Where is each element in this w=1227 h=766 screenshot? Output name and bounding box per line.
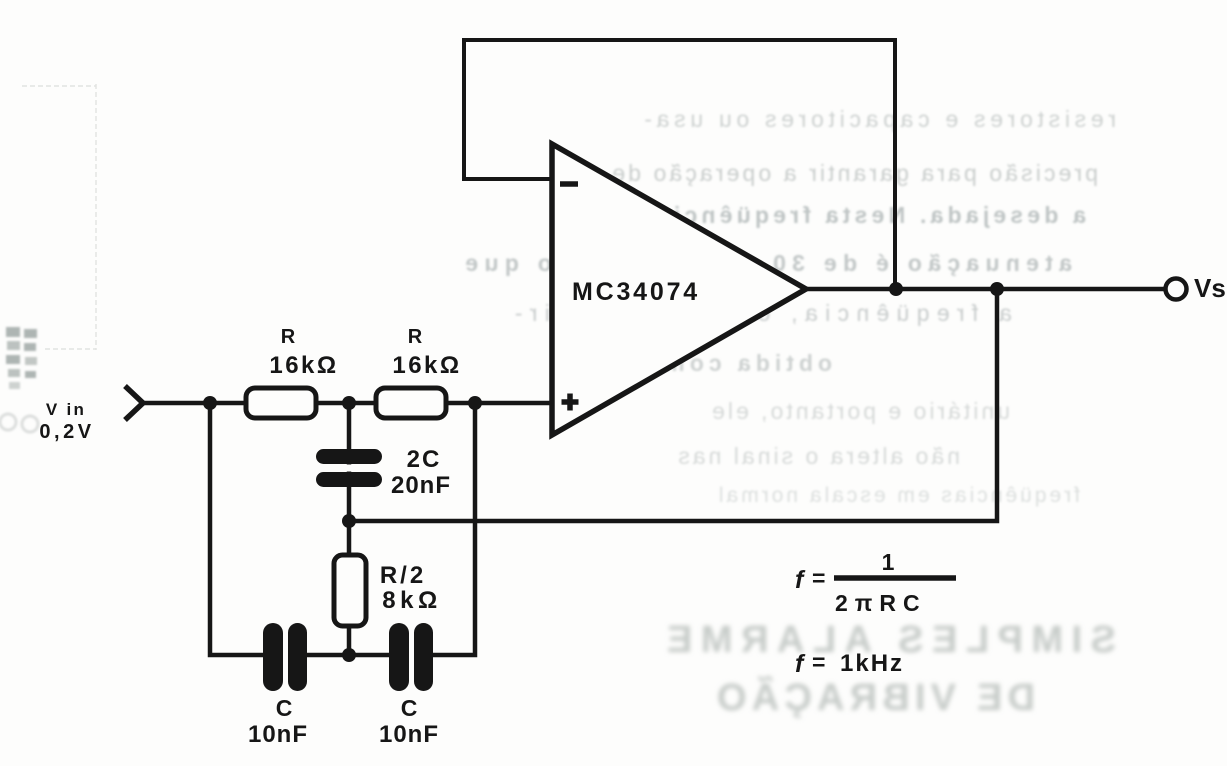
svg-text:0,2V: 0,2V [39,421,94,443]
output terminal Vs circle [1166,279,1187,300]
ghost show-through text (mirrored, faint) [459,106,1116,507]
node C: R2 output / right branch junction [468,396,482,410]
resistor R1 16k [246,388,316,418]
svg-text:16kΩ: 16kΩ [269,352,338,379]
node F: output / feedback-loop junction [889,282,903,296]
resistor R2 16k [376,388,446,418]
resistor R/2 8k [334,555,366,626]
svg-text:unitário e portanto, ele: unitário e portanto, ele [709,398,1010,424]
svg-text:resistores e capacitores ou us: resistores e capacitores ou usa- [640,106,1116,132]
svg-text:10nF: 10nF [379,721,439,748]
svg-text:não altera o sinal nas: não altera o sinal nas [675,443,960,469]
small grey smudges, left edge [6,327,37,389]
capacitor C1 plates [263,623,307,691]
svg-text:freqüências em escala normal: freqüências em escala normal [716,484,1080,507]
formula f = 1 / 2piRC [795,549,956,616]
node G: output / lower-feedback junction [990,282,1004,296]
svg-text:1kHz: 1kHz [840,650,904,677]
svg-text:V in: V in [46,400,86,419]
svg-text:precisão para garantir a opera: precisão para garantir a operação de [609,160,1098,186]
capacitor 2C plates [316,449,382,487]
wire: feedback loop to inverting input [464,40,895,289]
op-amp plus sign [562,394,579,411]
svg-text:R: R [281,326,296,348]
svg-text:20nF: 20nF [391,472,451,499]
wire: left vertical branch, bottom horizontal, right vertical branch [210,403,475,655]
wire: op-amp output to Vs [804,287,1166,292]
svg-text:2πRC: 2πRC [835,590,927,616]
svg-text:1: 1 [882,549,895,575]
gap between C2 plates [409,621,414,693]
ghost title SIMPLES ALARME / DE VIBRAÇÃO (mirrored) [659,619,1117,719]
capacitor C2 plates [389,623,433,691]
svg-text:Vs: Vs [1194,273,1226,303]
svg-text:C: C [276,695,293,721]
node A: input / left branch junction [203,396,217,410]
node E: bottom tee junction [342,648,356,662]
op-amp minus sign [560,181,578,187]
svg-text:C: C [401,695,418,721]
gap between 2C plates [340,465,358,472]
gap between C1 plates [283,621,288,693]
node B: R1-R2-2C junction [342,396,356,410]
formula f = 1kHz [795,649,904,678]
op-amp U1 triangle [552,144,806,435]
wire: feedback from output node down to mid node [349,291,997,521]
svg-text:R/2: R/2 [380,562,426,589]
wire: middle vertical branch (through 2C) [347,403,352,655]
svg-text:=: = [812,649,825,675]
svg-text:2C: 2C [407,446,442,473]
svg-text:MC34074: MC34074 [572,278,700,306]
svg-text:8kΩ: 8kΩ [382,587,441,614]
input chevron (Vin terminal) [125,386,143,420]
wire: input to non-inverting input (main horizontal) [143,401,552,406]
faint reverse-page figure border, top-left [22,84,96,350]
svg-text:=: = [812,565,825,591]
svg-text:10nF: 10nF [248,721,308,748]
node D: 2C / R-half / feedback junction [342,514,356,528]
svg-text:DE VIBRAÇÃO: DE VIBRAÇÃO [712,675,1035,719]
svg-text:16kΩ: 16kΩ [392,352,461,379]
svg-text:R: R [408,326,423,348]
